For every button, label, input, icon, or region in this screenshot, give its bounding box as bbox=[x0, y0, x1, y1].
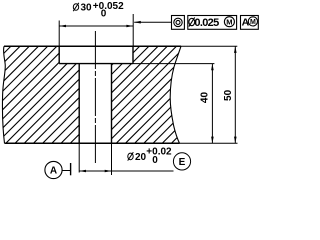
leader arrow bbox=[134, 21, 141, 24]
dia30 dimension: left extension line bbox=[58, 21, 60, 47]
50 dim arrow top bbox=[234, 46, 237, 53]
dia30 dimension text bbox=[73, 1, 124, 20]
concentricity symbol bbox=[174, 18, 182, 26]
svg-text:0: 0 bbox=[152, 155, 158, 166]
svg-text:30: 30 bbox=[81, 3, 93, 14]
datum A connector line bbox=[62, 170, 70, 172]
svg-text:50: 50 bbox=[223, 89, 234, 101]
hole dia20: right wall bbox=[111, 64, 113, 144]
dia20 dimension: left extension line below part bbox=[78, 143, 80, 172]
svg-text:0.025: 0.025 bbox=[194, 17, 219, 29]
circled M modifier 1 bbox=[224, 17, 234, 27]
svg-text:M: M bbox=[226, 18, 232, 27]
dia30 dimension: right extension line bbox=[132, 14, 134, 46]
counterbore dia30 cavity: left wall bbox=[58, 46, 60, 63]
envelope symbol circled E bbox=[173, 153, 190, 170]
centerline of holes bbox=[94, 31, 96, 164]
40 dim arrow top bbox=[211, 64, 214, 71]
50 dimension: extension line at top surface bbox=[181, 45, 237, 47]
circled M modifier 2 bbox=[248, 17, 257, 26]
svg-text:+0.052: +0.052 bbox=[93, 1, 124, 12]
50 dim arrow bottom bbox=[234, 137, 237, 144]
svg-text:0: 0 bbox=[101, 9, 107, 20]
FCF tolerance text dia0.025 bbox=[189, 17, 219, 29]
dia30 dimension line bbox=[59, 25, 133, 27]
dia20 dimension: right extension line below part bbox=[111, 143, 113, 175]
datum A terminal bar bbox=[70, 163, 72, 175]
svg-text:40: 40 bbox=[200, 92, 211, 104]
40 dimension: extension line at counterbore bottom bbox=[133, 63, 214, 65]
feature control frame: tolerance cell box bbox=[188, 16, 237, 30]
counterbore dia30 cavity: bottom bbox=[59, 63, 133, 65]
dia30 dim arrow right bbox=[126, 25, 133, 28]
svg-text:A: A bbox=[50, 166, 57, 177]
right break edge (wavy) bbox=[170, 46, 181, 143]
part outline: bottom surface bbox=[5, 142, 180, 144]
bottom extension line for 40/50 bbox=[180, 142, 238, 144]
part outline: top surface bbox=[4, 45, 181, 47]
dia20 dim arrow right bbox=[105, 170, 112, 173]
dia30 dim arrow left bbox=[59, 25, 66, 28]
section hatching lines bbox=[0, 40, 284, 150]
dia20 dimension line bbox=[79, 170, 173, 172]
dia20 dimension text bbox=[128, 146, 172, 165]
svg-text:M: M bbox=[250, 19, 256, 26]
counterbore dia30 cavity: right wall bbox=[132, 46, 134, 63]
left break edge (wavy) bbox=[2, 46, 5, 143]
datum A symbol circle bbox=[45, 161, 62, 178]
svg-text:20: 20 bbox=[135, 152, 147, 163]
feature control frame: datum cell box bbox=[241, 16, 259, 30]
svg-text:E: E bbox=[179, 157, 186, 168]
40 dim arrow bottom bbox=[211, 137, 214, 144]
leader line from FCF to dia30 extension line bbox=[134, 21, 171, 23]
dia20 dim arrow left bbox=[79, 170, 86, 173]
feature control frame: symbol cell box bbox=[172, 16, 185, 30]
50 dimension line bbox=[234, 46, 236, 143]
40 dimension line bbox=[211, 64, 213, 144]
hole dia20: left wall bbox=[78, 64, 80, 144]
svg-text:+0.02: +0.02 bbox=[146, 146, 172, 157]
